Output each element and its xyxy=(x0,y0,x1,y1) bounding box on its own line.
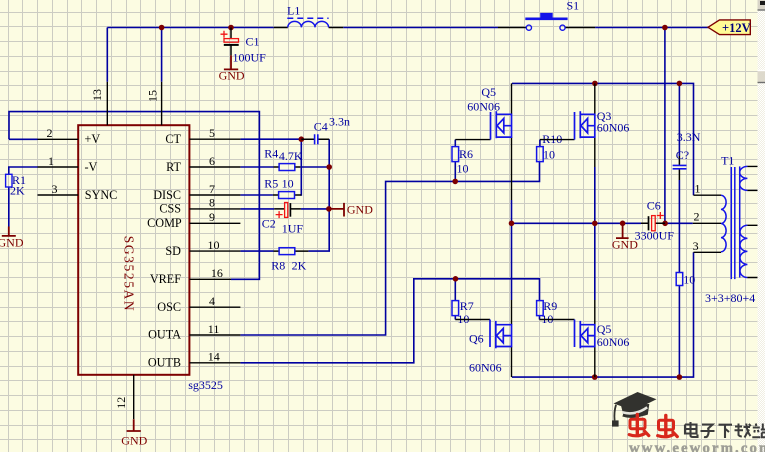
junction C2 / GND column xyxy=(326,206,332,212)
pin 8 xyxy=(189,208,240,210)
svg-text:OUTB: OUTB xyxy=(148,355,181,369)
resistor R8 xyxy=(271,248,308,273)
pin 16 xyxy=(189,278,231,280)
capacitor C? 3.3N xyxy=(673,130,701,180)
switch S1 xyxy=(498,0,595,30)
svg-text:GND: GND xyxy=(121,434,147,448)
MAIN WIRES xyxy=(9,28,709,378)
svg-text:S1: S1 xyxy=(567,0,580,13)
IC pins black xyxy=(38,82,241,419)
svg-text:SYNC: SYNC xyxy=(85,188,118,202)
ground GND under C1 xyxy=(219,55,245,82)
junction Q5b source / bottom rail xyxy=(592,374,598,380)
cap board xyxy=(614,392,657,411)
svg-text:9: 9 xyxy=(209,210,215,224)
svg-text:8: 8 xyxy=(209,196,215,210)
power tag +12V xyxy=(708,20,751,35)
junction Q3 drain / rail xyxy=(592,81,598,87)
tassel xyxy=(614,405,616,421)
svg-text:60N06: 60N06 xyxy=(597,121,630,135)
svg-text:15: 15 xyxy=(145,90,159,102)
transistor Q5b (bottom right MOSFET) xyxy=(575,300,630,377)
svg-text:3+3+80+4: 3+3+80+4 xyxy=(705,291,755,305)
svg-text:GND: GND xyxy=(219,69,245,83)
hanzi zhan xyxy=(752,424,765,438)
svg-text:10: 10 xyxy=(208,238,220,252)
pin 5 xyxy=(189,138,240,140)
svg-text:3: 3 xyxy=(693,239,699,253)
pin 3 xyxy=(38,194,79,196)
svg-text:6: 6 xyxy=(209,154,215,168)
junction C1 / top rail xyxy=(228,25,234,31)
svg-text:7: 7 xyxy=(209,182,215,196)
svg-text:60N06: 60N06 xyxy=(469,361,502,375)
capacitor C4 xyxy=(301,115,350,145)
junction aux column / bottom rail xyxy=(677,374,683,380)
svg-text:2K: 2K xyxy=(292,258,307,272)
svg-text:R8: R8 xyxy=(271,258,285,272)
pin 15 xyxy=(161,82,163,125)
svg-text:C4: C4 xyxy=(314,120,328,134)
pin 13 xyxy=(106,82,108,125)
svg-text:3300UF: 3300UF xyxy=(635,229,675,243)
svg-text:60N06: 60N06 xyxy=(467,99,500,113)
svg-text:C6: C6 xyxy=(647,199,661,213)
wire R7 top lead xyxy=(454,279,456,301)
pin 10 xyxy=(189,250,240,252)
wire R6 top lead xyxy=(454,140,456,147)
inductor L1 xyxy=(274,4,344,28)
wire gate Q6 xyxy=(455,319,490,321)
junction +12V / center row xyxy=(662,221,668,227)
pin 7 xyxy=(189,194,240,196)
capacitor C2 xyxy=(262,203,304,236)
transformer T1 xyxy=(693,154,765,305)
wire -V pin1 to R1 xyxy=(9,167,38,227)
wire drain rail top xyxy=(512,83,694,195)
wire Q5 source segment xyxy=(511,200,513,223)
hanzi dian xyxy=(685,422,698,437)
svg-text:COMP: COMP xyxy=(147,216,182,230)
hanzi zai xyxy=(735,424,751,438)
svg-text:5: 5 xyxy=(209,126,215,140)
svg-text:60N06: 60N06 xyxy=(597,335,630,349)
hanzi chong 1 xyxy=(629,414,649,435)
svg-text:14: 14 xyxy=(208,350,220,364)
junction Q3-Q5b / center row xyxy=(592,221,598,227)
wire gate Q5 xyxy=(455,139,490,141)
wire CT pin5 row xyxy=(240,138,301,140)
svg-text:16: 16 xyxy=(211,266,223,280)
wire Q6 drain segment xyxy=(511,223,513,300)
IC pin numbers xyxy=(47,89,223,409)
T1 primary winding xyxy=(721,195,726,252)
svg-text:L1: L1 xyxy=(287,4,300,18)
transistor Q5 (top left MOSFET) xyxy=(467,83,511,200)
svg-text:OUTA: OUTA xyxy=(148,328,181,342)
wire CSS row C2 xyxy=(240,208,329,210)
wire R7 bottom lead xyxy=(454,316,456,320)
svg-text:R4: R4 xyxy=(264,147,278,161)
resistor R7 xyxy=(452,299,474,326)
svg-text:+12V: +12V xyxy=(722,21,751,35)
wire RT row R4 xyxy=(240,166,329,168)
svg-text:1: 1 xyxy=(48,154,54,168)
T1 secondary top winding xyxy=(740,166,748,190)
wire OUTB net xyxy=(240,279,539,363)
junction R6 / OUTA rail xyxy=(452,179,458,185)
ground GND under C6 xyxy=(612,223,638,251)
wire +12V drop to center tap xyxy=(664,28,666,224)
wire gate Q3 xyxy=(540,139,575,141)
pin 1 xyxy=(38,166,79,168)
T1 secondary bottom winding xyxy=(740,225,747,277)
svg-text:Q6: Q6 xyxy=(469,332,484,346)
svg-text:4: 4 xyxy=(209,294,215,308)
svg-text:1: 1 xyxy=(695,182,701,196)
wire pin15 vertical xyxy=(161,28,163,82)
svg-text:GND: GND xyxy=(0,236,24,250)
wire Q3 source segment xyxy=(594,167,596,223)
svg-text:3.3n: 3.3n xyxy=(329,115,350,129)
resistor R9 xyxy=(537,299,558,326)
junction pin15 / top rail xyxy=(159,25,165,31)
svg-text:2K: 2K xyxy=(10,184,25,198)
wire OUTA net xyxy=(240,162,539,335)
resistor R6 xyxy=(452,147,473,176)
hanzi zi xyxy=(701,425,715,438)
wire VCC/VREF rail xyxy=(9,112,259,280)
svg-text:10: 10 xyxy=(543,148,555,162)
junction R4 / GND column xyxy=(326,164,332,170)
svg-text:sg3525: sg3525 xyxy=(188,378,223,392)
transistor Q3 (top right MOSFET) xyxy=(575,83,630,167)
pin 14 xyxy=(189,362,240,364)
IC U1 SG3525AN outline xyxy=(78,125,189,375)
T1 pin leads xyxy=(693,195,721,252)
svg-text:C2: C2 xyxy=(262,217,276,231)
pin 11 xyxy=(189,334,240,336)
wire top +12V rail xyxy=(107,27,708,29)
capacitor C1 xyxy=(221,28,267,65)
transistor Q6 (bottom left MOSFET) xyxy=(469,300,512,377)
ground GND under pin 12 xyxy=(121,419,147,447)
svg-text:13: 13 xyxy=(90,89,104,101)
scrollbar right xyxy=(758,0,765,452)
svg-text:+V: +V xyxy=(85,132,101,146)
svg-text:2: 2 xyxy=(47,126,53,140)
svg-text:Q5: Q5 xyxy=(481,85,496,99)
svg-text:10: 10 xyxy=(683,273,695,287)
junction Q5-Q6 / center row xyxy=(509,221,515,227)
svg-text:2: 2 xyxy=(694,210,700,224)
wire gate Q5b xyxy=(540,319,575,321)
T1 secondary inner line xyxy=(739,166,741,277)
svg-text:C1: C1 xyxy=(246,35,260,49)
wire bottom source rail xyxy=(512,252,694,377)
svg-text:10: 10 xyxy=(457,162,469,176)
wire aux 10-ohm column xyxy=(678,83,680,377)
svg-text:VREF: VREF xyxy=(150,272,181,286)
wire C4 right / GND column B xyxy=(308,139,329,251)
svg-text:R5: R5 xyxy=(264,176,278,190)
svg-text:Q5: Q5 xyxy=(597,322,612,336)
resistor 10 (aux) xyxy=(676,273,695,287)
hanzi xia xyxy=(719,425,733,438)
svg-text:DISC: DISC xyxy=(153,188,181,202)
svg-text:SG3525AN: SG3525AN xyxy=(122,236,137,313)
resistor R5 xyxy=(264,176,301,198)
resistor R10 xyxy=(537,132,563,161)
pin 6 xyxy=(189,166,240,168)
junction aux column / rail xyxy=(677,81,683,87)
cap base xyxy=(621,404,650,417)
svg-text:3: 3 xyxy=(52,182,58,196)
T1 core xyxy=(731,167,735,279)
wire R10 top lead xyxy=(539,140,541,147)
svg-text:C?: C? xyxy=(676,148,689,162)
ground GND under R1 xyxy=(0,227,24,250)
capacitor C6 xyxy=(635,199,675,243)
resistor R1 xyxy=(6,173,26,198)
wire CT vertical to R5 xyxy=(299,139,302,195)
svg-text:1UF: 1UF xyxy=(282,222,304,236)
svg-text:GND: GND xyxy=(612,238,638,252)
svg-text:GND: GND xyxy=(347,203,373,217)
junction CT node xyxy=(299,136,305,142)
svg-text:T1: T1 xyxy=(721,154,734,168)
junction +12V drop / top rail xyxy=(662,25,668,31)
svg-text:OSC: OSC xyxy=(157,300,181,314)
svg-text:-V: -V xyxy=(85,160,98,174)
hanzi chong 2 xyxy=(658,415,678,436)
junction GND / center row xyxy=(620,221,626,227)
pin 9 xyxy=(189,222,240,224)
wire pin13 vertical xyxy=(106,28,108,82)
wire R9 bottom lead xyxy=(539,316,541,320)
svg-text:SD: SD xyxy=(165,244,181,258)
svg-text:4.7K: 4.7K xyxy=(279,149,303,163)
svg-text:12: 12 xyxy=(114,397,128,409)
svg-text:CSS: CSS xyxy=(159,202,181,216)
svg-text:CT: CT xyxy=(165,132,181,146)
pin 2 xyxy=(38,138,79,140)
wire Q5b drain segment xyxy=(594,223,596,300)
junction R7 / OUTB rail xyxy=(453,276,459,282)
svg-text:11: 11 xyxy=(208,322,220,336)
svg-text:www.eeworm.com: www.eeworm.com xyxy=(629,440,765,452)
resistor R4 xyxy=(264,147,303,171)
watermark logo xyxy=(612,392,765,452)
pin 12 xyxy=(133,375,135,419)
svg-text:10: 10 xyxy=(282,177,294,191)
wire +V pin2 link xyxy=(9,138,38,140)
svg-text:100UF: 100UF xyxy=(233,51,267,65)
wire DISC row R5 xyxy=(240,194,273,196)
wire SD row R8 xyxy=(240,250,273,252)
svg-text:R6: R6 xyxy=(459,147,473,161)
wire center tap row xyxy=(512,222,693,224)
IC pin name labels xyxy=(85,132,182,369)
svg-text:RT: RT xyxy=(166,160,181,174)
pin 4 xyxy=(189,306,240,308)
wire R6 bottom lead xyxy=(454,162,456,182)
ground GND right of C2 xyxy=(331,203,373,217)
svg-text:3.3N: 3.3N xyxy=(677,130,701,144)
